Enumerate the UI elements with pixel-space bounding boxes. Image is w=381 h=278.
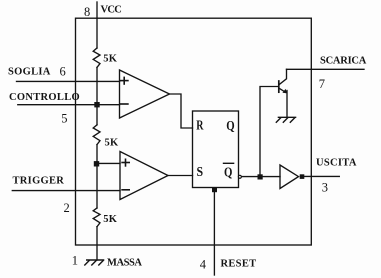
resistor R3 5K lower xyxy=(93,208,100,227)
svg-text:5K: 5K xyxy=(103,54,118,65)
svg-text:1: 1 xyxy=(72,254,78,268)
op-amp comparator U2 xyxy=(120,152,168,200)
wire collector to SCARICA pin 7 xyxy=(287,68,365,70)
svg-text:TRIGGER: TRIGGER xyxy=(13,176,65,187)
svg-text:RESET: RESET xyxy=(221,259,257,270)
wire comparator1 output to R input xyxy=(170,94,193,128)
svg-text:6: 6 xyxy=(60,65,66,79)
wire emitter to ground xyxy=(286,91,288,118)
wire SOGLIA pin 6 to comparator1 plus xyxy=(17,80,120,82)
svg-text:S: S xyxy=(197,165,204,180)
junction divider tap R2-R3 xyxy=(94,161,99,166)
wire VCC rail to R1 xyxy=(96,18,98,48)
svg-text:CONTROLLO: CONTROLLO xyxy=(9,92,80,103)
wire R3 to ground xyxy=(96,227,98,260)
junction control voltage tap xyxy=(94,102,99,107)
transistor Q1 discharge xyxy=(279,69,287,93)
junction output node xyxy=(300,174,305,179)
svg-text:USCITA: USCITA xyxy=(316,158,357,169)
svg-text:5K: 5K xyxy=(105,137,120,148)
wire tap to transistor base xyxy=(260,87,279,177)
svg-text:SOGLIA: SOGLIA xyxy=(8,67,51,78)
svg-text:8: 8 xyxy=(84,5,90,19)
svg-text:3: 3 xyxy=(322,180,328,194)
IC outline box xyxy=(76,18,312,245)
wire Q-bar to inverter input xyxy=(242,176,280,178)
junction RESET at flip-flop bottom xyxy=(212,188,217,192)
wire TRIGGER pin 2 to comparator2 minus xyxy=(12,190,120,192)
pin 8 lead (VCC) xyxy=(96,2,98,18)
inverting bubble on Q-bar output xyxy=(238,175,241,178)
SR flip-flop xyxy=(193,111,239,188)
wire R2 to R3 xyxy=(96,145,98,208)
svg-text:Q: Q xyxy=(224,166,232,181)
pin 4 lead (RESET) xyxy=(213,192,215,275)
svg-text:7: 7 xyxy=(319,77,325,91)
svg-text:SCARICA: SCARICA xyxy=(320,56,367,67)
junction discharge drive tap xyxy=(258,174,263,179)
svg-text:5K: 5K xyxy=(103,214,118,225)
ground MASSA chassis symbol xyxy=(85,260,104,265)
svg-text:MASSA: MASSA xyxy=(107,257,142,268)
wire divider tap to comparator2 plus xyxy=(97,162,121,164)
svg-text:VCC: VCC xyxy=(101,5,122,16)
wire R1 to R2 xyxy=(96,67,98,124)
wire output to USCITA pin 3 xyxy=(304,175,339,177)
svg-text:4: 4 xyxy=(200,257,207,271)
svg-text:5: 5 xyxy=(61,111,67,125)
ground chassis at discharge transistor xyxy=(276,117,295,122)
output buffer inverter xyxy=(280,165,299,189)
op-amp comparator U1 xyxy=(120,70,170,118)
svg-text:2: 2 xyxy=(64,201,70,215)
wire CONTROLLO pin 5 to comparator1 minus xyxy=(18,104,120,106)
svg-text:Q: Q xyxy=(226,119,234,134)
wire comparator2 output to S input xyxy=(168,175,193,177)
resistor R1 5K upper xyxy=(93,48,100,67)
svg-text:R: R xyxy=(196,119,204,134)
pin label Q-bar xyxy=(224,163,234,180)
resistor R2 5K middle xyxy=(93,125,100,145)
